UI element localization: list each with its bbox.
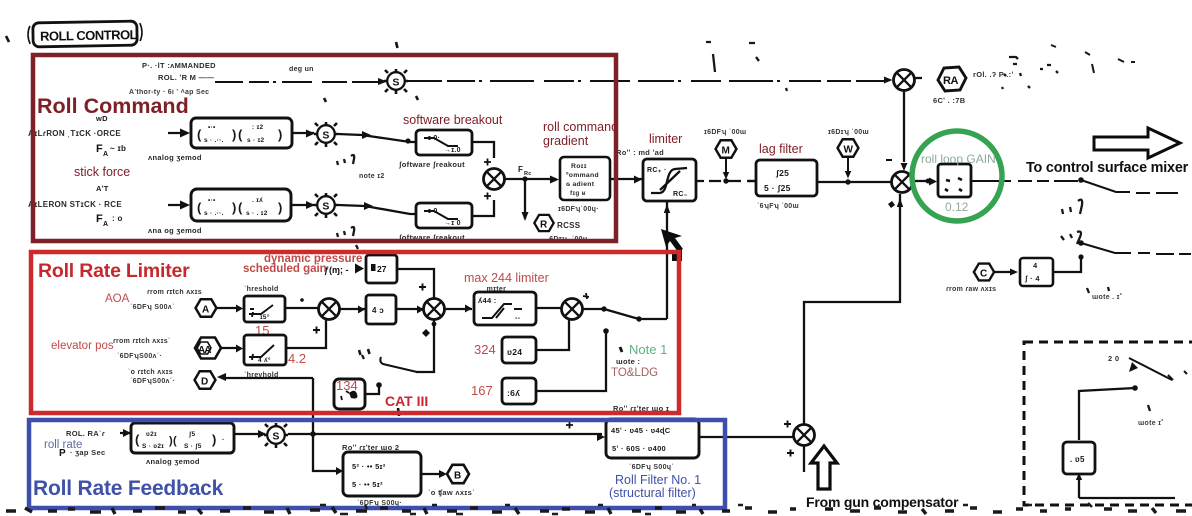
- arrowhead M down: [723, 172, 729, 180]
- svg-text:4: 4: [1033, 261, 1038, 270]
- junction dot above: [300, 298, 304, 302]
- plus above X5: [419, 284, 426, 291]
- svg-text:: o: : o: [112, 214, 123, 223]
- max roll rate limiter box 244: [474, 292, 536, 325]
- svg-text:scheduled gain: scheduled gain: [243, 263, 327, 275]
- svg-text:ʎ44 :: ʎ44 :: [478, 296, 497, 305]
- svg-text:S · ʃ5: S · ʃ5: [184, 443, 202, 450]
- svg-text:ɪ6DFʮʾ00ɥ·: ɪ6DFʮʾ00ɥ·: [558, 205, 599, 213]
- svg-text:(: (: [238, 127, 243, 142]
- svg-text:B: B: [454, 471, 461, 482]
- svg-text:AA: AA: [198, 345, 211, 356]
- small diamond on riser: [888, 201, 895, 208]
- wire: X5 down to CAT III switch: [416, 320, 434, 372]
- svg-text:C: C: [980, 269, 987, 280]
- summing junction X6 (limit select): [562, 299, 583, 320]
- summing junction X2 (main roll loop sum): [892, 172, 913, 193]
- wire: 134 box up to D line: [365, 385, 379, 394]
- arrowhead W down: [845, 171, 851, 179]
- node FRC dot: [522, 176, 527, 181]
- svg-text:limiter: limiter: [649, 132, 682, 146]
- svg-text:AɪLERON STɪCK · RCE: AɪLERON STɪCK · RCE: [28, 200, 122, 209]
- svg-text:): ): [278, 127, 283, 142]
- summing junction S3 (aft): [314, 193, 338, 218]
- svg-text:ʾhreshold: ʾhreshold: [244, 285, 279, 293]
- switch contacts 0 0: [359, 349, 370, 355]
- wire: X5 to 244 limiter: [445, 308, 472, 310]
- summing junction S6 (roll rate): [264, 423, 288, 448]
- svg-text:5 · ʃ25: 5 · ʃ25: [764, 183, 791, 193]
- svg-text:~ ɪb: ~ ɪb: [110, 144, 126, 153]
- roll rate limit box 324: [502, 337, 536, 363]
- plus sign lower input: [484, 193, 491, 200]
- wire: AA to threshold 2: [221, 347, 238, 349]
- svg-text:lag filter: lag filter: [759, 142, 803, 156]
- summing junction X3 (stick force sum): [484, 169, 505, 190]
- junction dot at 639: [636, 316, 641, 321]
- standby gain box .35: [1063, 442, 1095, 474]
- arrowhead into fwd prefilter: [180, 129, 190, 138]
- svg-text:(: (: [238, 200, 243, 215]
- svg-text:ɯote ɪ˚: ɯote ɪ˚: [1138, 419, 1164, 427]
- wire: 027 box to X5 top: [397, 269, 434, 299]
- svg-text:ɾrom ɾɪtch ʌxɪsʿ: ɾrom ɾɪtch ʌxɪsʿ: [113, 337, 171, 345]
- svg-text:ɢ adient: ɢ adient: [566, 181, 595, 188]
- arrowhead into D: [217, 373, 226, 381]
- svg-text:software breakout: software breakout: [403, 113, 503, 127]
- svg-text:ʌna og ʒemod: ʌna og ʒemod: [148, 226, 202, 235]
- gain box scan marks: [945, 178, 962, 191]
- junction dot roll rate tap: [310, 431, 316, 437]
- svg-text:elevator pos: elevator pos: [51, 340, 114, 352]
- junction dot top of 167 riser: [603, 328, 609, 334]
- wire: threshold 1 to X4: [285, 307, 318, 309]
- wire: X3 to roll command gradient: [505, 178, 556, 180]
- wire: breakout B to sum X3: [472, 200, 494, 216]
- wire: tap down to roll filter no 2: [313, 434, 338, 471]
- arrowhead up into X2 from below: [897, 198, 903, 207]
- svg-text:note ɪ2: note ɪ2: [359, 173, 385, 180]
- svg-text:A: A: [103, 221, 108, 228]
- arrowhead into trim sum S1: [378, 78, 387, 85]
- arrowhead into demod box: [123, 429, 131, 437]
- svg-text:s · . ɪ2: s · . ɪ2: [246, 210, 268, 217]
- svg-text:ʿ6DFʮS00ʌʿ·: ʿ6DFʮS00ʌʿ·: [117, 352, 162, 360]
- svg-text:ɾrom ɾɪtch ʌxɪs: ɾrom ɾɪtch ʌxɪs: [147, 289, 202, 296]
- wire: A to threshold 1: [216, 307, 238, 309]
- svg-text:ɯote :: ɯote :: [616, 357, 640, 366]
- svg-text:ROL. RAʾɾ: ROL. RAʾɾ: [66, 429, 105, 438]
- wire: breakout A to sum X3: [472, 142, 494, 158]
- plus sign lower left of X4: [313, 327, 320, 334]
- svg-text:(: (: [197, 200, 202, 215]
- speckle note 18 right side: [1087, 287, 1109, 293]
- svg-text:. ʋ5: . ʋ5: [1070, 455, 1085, 464]
- wire: s+4 box up to switch 2: [1053, 258, 1081, 272]
- dashed standby gain box: [1024, 342, 1192, 505]
- svg-text:AʹT: AʹT: [96, 184, 109, 193]
- hexagon A (AOA input): [196, 299, 217, 316]
- junction dot X6 out: [601, 306, 606, 311]
- bottom scan residue row: [6, 507, 1186, 514]
- svg-text:ʌnalog ʒemod: ʌnalog ʒemod: [148, 153, 202, 162]
- wire: X6 output to switch node: [583, 308, 603, 310]
- svg-text:Roɪɪ: Roɪɪ: [571, 163, 587, 170]
- threshold 2 glyph: [249, 345, 274, 360]
- arrowhead into RCG box: [550, 176, 559, 184]
- svg-text:ƒ(ɱ; -: ƒ(ɱ; -: [324, 265, 349, 275]
- svg-text:)(: )(: [169, 435, 177, 447]
- junction dot below X5: [432, 322, 437, 327]
- svg-text:S · ʋ2ɪ: S · ʋ2ɪ: [142, 443, 164, 450]
- summing junction X5 (times dynamic pressure): [424, 299, 445, 320]
- switch speckle fwd row: [337, 155, 354, 165]
- svg-text:ʃ5: ʃ5: [188, 431, 195, 438]
- svg-text:(: (: [197, 127, 202, 142]
- wire: M down to main line: [725, 158, 727, 176]
- svg-text:RCSS: RCSS: [557, 221, 581, 230]
- arrowhead into S3: [306, 201, 315, 209]
- 134 box marks: [341, 391, 349, 400]
- threshold box 1 (AOA 15 deg): [244, 296, 285, 322]
- stray dot above S2: [324, 96, 418, 102]
- svg-text:fɪg ʁ: fɪg ʁ: [570, 190, 586, 197]
- roll rate limit box 167: [502, 378, 536, 404]
- svg-text:roll rate: roll rate: [44, 439, 82, 451]
- svg-text:Roll Filter No. 1: Roll Filter No. 1: [615, 473, 701, 487]
- arrowhead into B: [439, 470, 447, 478]
- tick left of X2: [886, 159, 892, 161]
- roll loop gain box (0.12): [938, 164, 971, 197]
- stray speckles top right: [1051, 45, 1135, 73]
- wire: threshold 2 to X4 bottom: [286, 319, 326, 348]
- arrowhead into X5: [417, 306, 424, 314]
- arrowhead into 244 limiter: [465, 305, 472, 313]
- roll rate analog demod box: [131, 423, 234, 453]
- svg-text:D: D: [201, 377, 208, 388]
- svg-text:ºommand: ºommand: [566, 172, 599, 179]
- lag filter box: [756, 160, 817, 196]
- svg-text:: ɪ2: : ɪ2: [252, 124, 264, 131]
- svg-text:s · ɪ2: s · ɪ2: [247, 137, 265, 144]
- hexagon AA (elevator position input): [195, 338, 221, 359]
- svg-text:RA: RA: [943, 75, 958, 87]
- junction dot at switch 2: [1078, 240, 1084, 246]
- arrowhead tip right: [1168, 371, 1187, 380]
- wire: lag filter to X2: [817, 181, 891, 183]
- svg-text:ʌnalog ʒemod: ʌnalog ʒemod: [146, 457, 200, 466]
- arrowhead into top sum junction: [884, 77, 893, 84]
- junction dot before gain: [926, 179, 931, 184]
- arrowhead into aft prefilter: [180, 201, 190, 210]
- svg-text:F: F: [518, 165, 523, 174]
- svg-text:CAT III: CAT III: [385, 393, 428, 409]
- svg-text:ɾrom ɾaw ʌxɪs: ɾrom ɾaw ʌxɪs: [946, 286, 996, 293]
- svg-text:): ): [212, 432, 217, 447]
- wire: fwd prefilter to S2: [292, 132, 314, 134]
- svg-text:ʾo ɾɪtch ʌxɪs: ʾo ɾɪtch ʌxɪs: [128, 368, 173, 376]
- svg-text:ʃ · 4: ʃ · 4: [1024, 274, 1040, 283]
- svg-text:4.2: 4.2: [288, 351, 306, 366]
- wire: aft prefilter to S3: [291, 204, 314, 206]
- ROLL CONTROL title stamp: [28, 21, 142, 47]
- svg-text:ROLL CONTROL: ROLL CONTROL: [40, 27, 138, 44]
- roll command gradient box: [560, 157, 610, 200]
- red Roll Rate Limiter annotation box: [31, 252, 679, 413]
- arrowhead into 027 box: [355, 264, 364, 274]
- roll filter no 2 box: [343, 452, 421, 496]
- svg-text:4 ʎ°: 4 ʎ°: [258, 356, 271, 364]
- summing junction X1 top right: [894, 70, 915, 91]
- svg-text:Roll Rate Limiter: Roll Rate Limiter: [38, 260, 190, 282]
- wire: 324 box to X6 bottom: [536, 320, 569, 350]
- svg-text:s · .··.: s · .··.: [204, 137, 224, 144]
- svg-text:ʃ25: ʃ25: [775, 168, 789, 178]
- svg-text:→ɪ.0: →ɪ.0: [444, 147, 461, 154]
- svg-text:gradient: gradient: [543, 134, 589, 148]
- stray speckles top middle: [706, 42, 787, 91]
- speckle cluster above right of RA: [1002, 57, 1058, 89]
- wire: roll filter 1 output to gun comp sum: [699, 436, 793, 438]
- svg-text:--: --: [515, 315, 521, 322]
- stray mark left edge: [6, 36, 9, 42]
- svg-text:F: F: [96, 213, 103, 225]
- switch blade 2: [1081, 243, 1191, 254]
- svg-text:Rc: Rc: [524, 171, 532, 177]
- wire: roll rate tap to D: [226, 377, 313, 379]
- wire: input to aft prefilter: [168, 204, 185, 206]
- switch blade 1: [1081, 180, 1178, 193]
- svg-text:(structural filter): (structural filter): [609, 486, 696, 500]
- svg-text:A: A: [103, 151, 108, 158]
- aft stick force prefilter box: [191, 189, 291, 221]
- wire: demod to S6: [234, 433, 265, 435]
- wire: input to fwd prefilter: [168, 132, 185, 134]
- svg-text:deg un: deg un: [289, 66, 314, 73]
- hexagon C (from yaw axis): [974, 264, 994, 281]
- wire: X1 down to X2: [903, 91, 905, 162]
- switch blade in dashed box: [1129, 358, 1172, 380]
- wire: S6 to roll filter no 1: [288, 433, 602, 435]
- wire: FRC node down to R hexagon: [524, 181, 526, 219]
- svg-text:134: 134: [336, 378, 358, 393]
- wire: roll rate input: [120, 432, 130, 434]
- junction dot above s+4 wire: [1078, 254, 1083, 259]
- svg-text:2 0: 2 0: [1108, 354, 1119, 363]
- wire: S3 to breakout B (sloped): [338, 205, 416, 214]
- limiter saturation glyph: [651, 168, 687, 193]
- wire: below gun comp sum: [803, 446, 805, 472]
- svg-text:Roll Rate Feedback: Roll Rate Feedback: [33, 477, 224, 500]
- svg-text:stick force: stick force: [74, 165, 130, 179]
- software breakout box A: [416, 130, 472, 155]
- svg-text:ʾo ʧaw ʌxɪsʿ: ʾo ʧaw ʌxɪsʿ: [428, 488, 475, 497]
- arrowhead up into limiter: [664, 204, 670, 213]
- CAT III alternate box 134: [334, 379, 365, 409]
- arrowhead into roll filter 1: [597, 433, 605, 441]
- svg-text:6Cʹ . :7B: 6Cʹ . :7B: [933, 96, 966, 105]
- dash between X1 and RA hexagon: [915, 77, 922, 79]
- 244 limiter glyph: [482, 304, 522, 318]
- blue Roll Rate Feedback annotation box: [29, 420, 725, 508]
- svg-text:ʃoftware ʃreakout: ʃoftware ʃreakout: [398, 160, 465, 169]
- threshold 1 glyph: [249, 305, 273, 317]
- svg-text:Roll Command: Roll Command: [37, 94, 189, 118]
- yaw washout box (4/(s+4)): [1020, 258, 1053, 286]
- plus sign upper input: [484, 159, 491, 166]
- threshold box 2 (elevator 4.2 deg): [244, 335, 286, 365]
- svg-text:0.12: 0.12: [945, 200, 969, 214]
- junction dot on 134 riser: [376, 382, 382, 388]
- svg-text:TO&LDG: TO&LDG: [611, 367, 658, 379]
- wire: gain box to right (solid then dash-dot): [971, 180, 1078, 182]
- svg-text:·: ·: [222, 437, 225, 444]
- svg-text:4 ɔ: 4 ɔ: [372, 306, 384, 315]
- speckle note 18 in dashed box: [1148, 405, 1150, 411]
- svg-text:M: M: [722, 146, 730, 157]
- svg-text:S: S: [322, 200, 329, 212]
- breakout B glyph: [424, 211, 458, 219]
- svg-text:ɯote . ɪ˚: ɯote . ɪ˚: [1092, 293, 1122, 301]
- hexagon D (roll rate to pitch axis): [195, 371, 216, 388]
- svg-text:RC₊ ·: RC₊ ·: [647, 167, 667, 174]
- wire: RCG to limiter: [610, 178, 643, 180]
- arrowhead into S6: [258, 430, 266, 438]
- junction dot at switch 1: [1078, 177, 1084, 183]
- svg-text:5 · •• 5ɪ²: 5 · •• 5ɪ²: [352, 480, 383, 489]
- arrowhead mid wire aft: [364, 202, 373, 210]
- hexagon M: [716, 140, 737, 157]
- junction dot before breakout A: [405, 138, 410, 143]
- breakout A glyph: [424, 138, 458, 146]
- plus below gun comp sum: [787, 450, 794, 457]
- svg-text:•·•: •·•: [208, 197, 216, 204]
- summing junction X4 (threshold sum): [319, 299, 340, 320]
- switch hook speckle 2: [1061, 232, 1081, 244]
- wire: 4.0 to X5: [396, 308, 424, 310]
- svg-text:): ): [232, 127, 237, 142]
- dark red Roll Command annotation box: [33, 55, 616, 241]
- svg-text:S: S: [272, 430, 279, 442]
- wire: W down to main line: [847, 157, 849, 175]
- wire: roll trim dashed line left of S: [215, 81, 378, 83]
- black dot before Note 1: [620, 347, 622, 352]
- svg-text:. ɪʎ: . ɪʎ: [252, 197, 263, 204]
- wire: limiter to lag filter (dash-dot): [696, 180, 762, 182]
- wire: 244 limiter to X6: [536, 307, 562, 309]
- svg-text::6ʎ: :6ʎ: [507, 388, 520, 398]
- svg-text:ʿ6DFʮ S00ʌʿ: ʿ6DFʮ S00ʌʿ: [130, 303, 175, 311]
- switch hook speckle 1: [1062, 200, 1082, 214]
- summing junction X7 (gun compensator sum): [794, 425, 815, 446]
- arrowhead on dashed box switch: [1129, 362, 1138, 372]
- speckle mark above 134: [362, 355, 364, 359]
- arrowhead down to R: [522, 212, 529, 221]
- arrowhead into s+4 box: [1010, 269, 1018, 276]
- junction dot under M: [723, 178, 728, 183]
- svg-text:AɪLɾRON ˌTɪCK ·ORCE: AɪLɾRON ˌTɪCK ·ORCE: [28, 129, 121, 138]
- svg-text:RC₋: RC₋: [673, 191, 688, 198]
- plus diamond below X5: [422, 329, 430, 337]
- wire: riser up to limiter block lower input: [666, 202, 668, 319]
- svg-text:•·•: •·•: [208, 124, 216, 131]
- svg-text:max 244 limiter: max 244 limiter: [464, 271, 549, 285]
- svg-text:roll command: roll command: [543, 120, 618, 134]
- tick below CAT III: [398, 408, 399, 416]
- CAT III switch blade: [380, 357, 417, 372]
- wire: trim dashed line S1 to top sum junction: [408, 80, 886, 82]
- svg-text:F: F: [96, 143, 103, 155]
- wire: X4 to gain 4.0 box: [340, 308, 365, 310]
- wire: roll filter 2 to B: [421, 473, 443, 475]
- bottom residue second layer: [320, 503, 1092, 514]
- svg-text:S: S: [392, 76, 399, 88]
- svg-text:): ): [278, 200, 283, 215]
- wire: roll rate riser down into blue box: [312, 378, 314, 434]
- svg-text:): ): [232, 200, 237, 215]
- hexagon B (to yaw axis): [447, 465, 469, 483]
- svg-text:5ʹ · 60S · ʋ400: 5ʹ · 60S · ʋ400: [612, 444, 666, 453]
- svg-text:AOA: AOA: [105, 293, 130, 305]
- junction dot under W: [845, 179, 850, 184]
- wire: C to s+4 box: [994, 271, 1012, 273]
- svg-text:ɪ6DFʮ ʿ00ɯ: ɪ6DFʮ ʿ00ɯ: [704, 128, 746, 136]
- tick above S1: [396, 42, 398, 48]
- arrowhead into limiter: [634, 176, 642, 184]
- arrowhead into threshold 1: [236, 305, 243, 313]
- svg-text:To control surface mixer: To control surface mixer: [1026, 160, 1189, 176]
- hexagon R (RCSS): [534, 215, 553, 231]
- svg-text:rOl. .ʔ P .:ʹ: rOl. .ʔ P .:ʹ: [973, 70, 1014, 79]
- wire: switch down-left to .35 box: [1079, 388, 1135, 440]
- svg-text:ʋ24: ʋ24: [507, 347, 522, 357]
- roll filter no 1 box (structural filter): [606, 419, 699, 458]
- svg-text:ʿ6DFʮ S00ɥʿ: ʿ6DFʮ S00ɥʿ: [629, 463, 674, 471]
- svg-text:S: S: [322, 129, 329, 141]
- arrowhead into gain box: [929, 178, 937, 186]
- svg-text:P·. ·lT :ʌMMANDED: P·. ·lT :ʌMMANDED: [142, 61, 216, 70]
- gun compensator outline up arrow: [811, 446, 837, 489]
- summing junction S1 (roll trim): [384, 69, 408, 94]
- svg-text:Roʹʹ : md ʹad: Roʹʹ : md ʹad: [616, 148, 664, 157]
- wire: 167 box right and up: [536, 331, 606, 391]
- svg-text:5² · •• 5ɪ²: 5² · •• 5ɪ²: [352, 462, 386, 471]
- arrowhead mid wire fwd: [362, 131, 371, 139]
- software breakout box B: [416, 203, 472, 228]
- blob at corner: [672, 250, 682, 261]
- hexagon RA (roll attitude): [938, 67, 966, 91]
- svg-text:45ʹ · ʋ45 · ʋ4ɖC: 45ʹ · ʋ45 · ʋ4ɖC: [611, 426, 671, 435]
- green roll loop gain circle: [912, 131, 1002, 221]
- wire: X2 to roll loop gain box: [913, 180, 929, 182]
- cursor arrow annotation at red box corner: [661, 229, 683, 252]
- wire: bottom feed into .35 box: [1079, 478, 1175, 498]
- svg-text:ʿ6DFʮS00ʌʿ·: ʿ6DFʮS00ʌʿ·: [130, 377, 175, 385]
- svg-text:(: (: [135, 432, 140, 447]
- plus above roll filter 1 wire: [566, 422, 573, 429]
- roll rate gain box 4.0: [366, 295, 396, 324]
- svg-text:W: W: [844, 145, 854, 156]
- dynamic pressure gain box 027: [366, 255, 397, 283]
- svg-text:s · .··.: s · .··.: [204, 210, 224, 217]
- arrowhead up into .35 box: [1076, 473, 1082, 480]
- wire: gun comp sum up and over to X2: [804, 194, 900, 424]
- arrowhead into 4.0: [358, 306, 365, 314]
- svg-text:roll loop GAIN: roll loop GAIN: [921, 152, 996, 166]
- hexagon W: [838, 139, 859, 156]
- arrowhead down into X2: [901, 163, 908, 171]
- svg-text:ʋ2ɪ: ʋ2ɪ: [146, 431, 157, 438]
